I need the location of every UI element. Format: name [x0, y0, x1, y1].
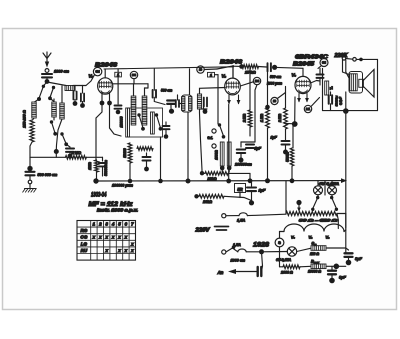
coil IFT2 tune coil [197, 94, 201, 109]
wire An lead [234, 271, 258, 273]
label tel [208, 136, 214, 140]
wire V1 anode to bus [104, 69, 106, 78]
resistor 20 kohm bleeder [194, 194, 224, 198]
dial lamp 1 [314, 181, 323, 195]
svg-text:V₃: V₃ [292, 73, 297, 78]
capacitor IFT1 fixed [167, 101, 175, 114]
node cath row bus [248, 178, 253, 183]
label 500cm coupling [270, 75, 281, 79]
svg-text:10000 Ω: 10000 Ω [308, 270, 321, 274]
svg-text:0M: 0M [322, 61, 327, 65]
wire to band switch [43, 82, 47, 86]
label 220K [333, 53, 348, 59]
resistor 100000 column [126, 108, 130, 137]
svg-text:6V-0,15A: 6V-0,15A [276, 258, 291, 262]
svg-text:An: An [217, 270, 224, 275]
svg-text:x: x [92, 235, 96, 240]
label 100000 selector [120, 116, 124, 127]
speaker cone [363, 70, 374, 98]
resistor 50000 column [151, 112, 155, 134]
wire top bus V1-V2 [104, 67, 234, 69]
wire to V1 grid [86, 75, 95, 86]
wire S1 to coil [35, 99, 40, 102]
box 1 V2 [208, 72, 219, 77]
svg-text:x: x [111, 235, 115, 240]
tone capacitor [329, 92, 332, 111]
resistor 50000 output [325, 81, 334, 95]
resistor 2 Mohm a [243, 67, 252, 136]
label 1.5A fuse1 [237, 218, 245, 223]
svg-text:x: x [124, 248, 128, 253]
arrow An [228, 269, 236, 274]
svg-text:2 MΩ: 2 MΩ [71, 150, 82, 155]
terminal tel 2 [212, 144, 216, 148]
svg-text:1μF: 1μF [271, 136, 278, 140]
node IFT2 bus [186, 179, 191, 184]
svg-text:500 cm: 500 cm [270, 75, 281, 79]
wire sel to bus b [158, 137, 163, 183]
resistor Bmax box [300, 264, 326, 269]
label 50000 lower [123, 148, 127, 157]
capacitor IFT1 trim a [153, 90, 165, 105]
screen circle 600 V1 [130, 71, 137, 84]
label 500cm IFT1 [161, 89, 172, 93]
wire node to coil top [47, 82, 66, 86]
capacitor 200000 cm [237, 142, 245, 163]
speaker voice coil [359, 79, 364, 87]
node V2 cath bus [226, 179, 231, 184]
svg-text:100000: 100000 [120, 116, 124, 127]
capacitor 1uF decoupling [241, 142, 262, 151]
svg-text:100000 μcm: 100000 μcm [112, 184, 134, 188]
wire IFT2 down to bus [187, 112, 189, 181]
svg-text:1000 μcm: 1000 μcm [267, 82, 282, 86]
pin V2 heater [237, 95, 241, 105]
svg-text:500000cm: 500000cm [104, 160, 108, 176]
svg-text:8μF: 8μF [339, 275, 347, 280]
wire bus to IFT2 primary [189, 69, 191, 95]
svg-text:RU: RU [81, 248, 88, 253]
svg-text:1000Ω: 1000Ω [215, 150, 219, 160]
svg-text:600: 600 [132, 74, 137, 77]
fuse 1 [226, 213, 286, 216]
wire frame left b [345, 60, 347, 109]
svg-text:1MΩ: 1MΩ [88, 162, 92, 170]
node mains junction [259, 249, 264, 254]
trimmer cap 1 [73, 86, 78, 106]
wire supply to frame [356, 58, 377, 62]
label 6V 0,15A lamps [319, 182, 340, 186]
switch sel a [137, 113, 145, 130]
node Bmax out [334, 264, 346, 270]
wire bus trim stub [153, 69, 155, 90]
grid leak cap V3 [317, 68, 324, 85]
pin V2 cathode [227, 95, 231, 105]
bus arrow end [341, 178, 347, 183]
resistor 2000 ohm [280, 265, 301, 269]
svg-text:5R: 5R [237, 187, 242, 192]
svg-text:V₁: V₁ [89, 74, 94, 79]
coupling capacitor [268, 63, 278, 71]
wire frame left a [342, 60, 344, 72]
svg-text:10: 10 [273, 99, 277, 103]
resistor 1 Mohm vertical [95, 157, 99, 178]
label 05uF tone [339, 97, 343, 105]
svg-text:x: x [130, 248, 134, 253]
label B2045 [293, 62, 314, 68]
label 50000 tone [335, 96, 339, 107]
capacitor IFT2 tune [200, 98, 208, 114]
title MF 112 kHz [89, 201, 134, 208]
mains terminal 2 [222, 250, 226, 254]
label Sm [312, 241, 318, 247]
label 6BR434C [295, 55, 329, 61]
svg-text:500 000 cm: 500 000 cm [38, 173, 58, 177]
svg-text:4: 4 [111, 222, 115, 227]
capacitor antenna series [42, 74, 52, 77]
wire V1 pin2 down [110, 103, 122, 136]
wire earth row [30, 156, 65, 158]
wire circle to anode node [204, 66, 233, 70]
label pilot lamp [276, 258, 291, 262]
bus earth line [96, 180, 342, 182]
wire IFT2 to V2 [200, 88, 226, 95]
svg-text:B2046: B2046 [220, 60, 243, 66]
capacitor 8uF a [345, 248, 363, 265]
input circle V2 [197, 66, 204, 73]
resistor 250-200 ohm [30, 118, 34, 157]
circle 0M output [318, 59, 328, 69]
mains terminal 1 [222, 214, 226, 218]
resistor 5000 ohm column [227, 142, 231, 166]
resistor 80-410 ohm [286, 212, 337, 216]
capacitor 1uF bleeder [247, 181, 266, 205]
resistor 30000 h [137, 147, 153, 151]
svg-text:V₂: V₂ [222, 73, 227, 78]
svg-text:2 MΩ: 2 MΩ [243, 114, 247, 124]
svg-text:20kΩ: 20kΩ [202, 200, 212, 204]
selector frame [128, 108, 163, 137]
wire V1 plate to IFT1 [113, 84, 149, 96]
switch S1 contact [42, 85, 45, 88]
label An [217, 270, 224, 275]
transformer winding [350, 74, 357, 91]
switch S2 arm [48, 86, 55, 102]
tube V3 [295, 76, 311, 93]
label 2 Mohm [71, 150, 82, 155]
wire coupling to V3 grid [277, 66, 304, 69]
wire rect bottom [279, 247, 281, 252]
capacitor 500000 cm earth [26, 172, 35, 176]
wire Sm to B+ [326, 247, 346, 249]
label V2 heater [326, 236, 331, 240]
wire rheostat right [337, 214, 338, 229]
svg-text:OG: OG [80, 235, 88, 240]
capacitor An series [258, 267, 262, 276]
wire 25k to coupling cap [259, 66, 267, 69]
antenna [43, 52, 51, 68]
switch S3 arm [50, 117, 57, 136]
svg-text:0M: 0M [96, 70, 101, 74]
svg-text:2000 Ω: 2000 Ω [280, 271, 293, 275]
node rheostat tap [296, 200, 301, 205]
wire bleeder right [224, 196, 252, 200]
svg-text:1 MΩ: 1 MΩ [260, 114, 264, 123]
svg-text:2 MΩ: 2 MΩ [278, 114, 282, 124]
switch lamp1 [311, 195, 319, 211]
svg-text:2: 2 [98, 222, 102, 227]
label Bmax [311, 259, 320, 265]
antenna terminal [45, 69, 49, 73]
wire coil to caps [73, 85, 86, 87]
antenna coupling coil bumps [65, 86, 74, 91]
wire IFT1 link top [145, 84, 149, 96]
wire x322 vertical [322, 68, 324, 110]
node bus left end [93, 178, 98, 183]
label 1000 ohm [215, 150, 219, 160]
wire R down to blocking cap [29, 157, 31, 166]
wire 5R down [239, 193, 241, 198]
svg-text:tel.: tel. [208, 136, 214, 140]
pin V3 cathode [297, 94, 301, 103]
svg-text:20kΩ: 20kΩ [207, 177, 217, 181]
label 1000 cm (antenna cap) [54, 70, 70, 74]
capacitor sel [163, 122, 170, 139]
dial lamp 2 [328, 181, 337, 195]
label Sm value [310, 252, 319, 256]
wire mains to lamp [262, 251, 288, 253]
svg-text:Instr. 1000 a.p.v.: Instr. 1000 a.p.v. [97, 208, 138, 213]
pilot lamp [287, 247, 296, 256]
svg-text:1000 cm: 1000 cm [54, 70, 70, 74]
title 1933-34 [91, 192, 107, 199]
label 20 kohm bleeder [202, 200, 212, 204]
coil L1 primary [52, 99, 56, 117]
screen circle 100 V2 [253, 77, 260, 84]
wire circle141 diag [311, 98, 320, 107]
svg-text:80 Ω - 410 Ω: 80 Ω - 410 Ω [299, 218, 337, 223]
label 220V [194, 228, 210, 234]
svg-text:1μF: 1μF [259, 188, 267, 193]
wire V3 right top [311, 81, 317, 84]
wire L2 bottom down [54, 119, 62, 157]
coil IFT2 bobbin [182, 95, 193, 112]
resistor 50000 lower [128, 143, 132, 163]
svg-text:220V: 220V [194, 228, 210, 234]
svg-text:1000 cm: 1000 cm [231, 259, 246, 263]
wire between lamps [324, 181, 326, 195]
coil IFT1 primary [131, 96, 136, 125]
svg-text:8μF: 8μF [355, 256, 363, 261]
capacitor sel lower [143, 153, 151, 171]
wire IFT2 left down [200, 113, 203, 173]
label B2046 [220, 60, 243, 66]
wire V2 to screen circle [240, 82, 253, 86]
wire antenna to node [46, 77, 48, 81]
padder capacitor [66, 144, 74, 158]
node antenna junction [45, 79, 50, 84]
svg-text:200000cm: 200000cm [234, 163, 252, 167]
node 25k left [239, 64, 244, 69]
resistor Sm box [311, 246, 326, 251]
svg-text:1933-34: 1933-34 [91, 192, 107, 199]
resistor 1 Mohm b [260, 67, 269, 178]
capacitor cathode bypass [99, 157, 108, 176]
label V1 [89, 74, 94, 79]
wire trafo leads [343, 72, 350, 78]
resistor 25 kohm [233, 65, 259, 69]
svg-text:100: 100 [255, 79, 260, 83]
node res bottoms [220, 166, 232, 174]
wire V3 cathode down [294, 97, 296, 122]
wire lamp to Sm [297, 248, 311, 251]
label V1 heater [309, 236, 314, 240]
resistor 5000 ohm avc [286, 126, 294, 179]
heater chain bumps [280, 224, 346, 231]
svg-text:RG: RG [80, 228, 87, 233]
coil antenna tap [32, 102, 36, 118]
label 1 Mohm [88, 162, 92, 170]
svg-text:0,5μF: 0,5μF [339, 97, 343, 105]
svg-text:x: x [117, 248, 121, 253]
switch lamp2 [330, 195, 338, 211]
trimmer cap 2 [80, 86, 85, 108]
svg-text:V₂: V₂ [326, 236, 331, 240]
switch sel b [155, 113, 163, 130]
label 500000 cm [38, 173, 58, 177]
node V3 cathode [292, 121, 298, 127]
pin V1 cathode [100, 93, 105, 106]
resistor 2 Mohm [65, 156, 102, 160]
label V2 [222, 73, 227, 78]
svg-text:6V 0,15A: 6V 0,15A [319, 182, 340, 186]
svg-text:V₃: V₃ [291, 236, 296, 240]
supply terminal a [342, 57, 346, 61]
label 25 kohm [244, 70, 256, 75]
svg-text:500 cm: 500 cm [161, 89, 172, 93]
label B2048 [95, 63, 118, 69]
switch mains arm [226, 246, 238, 253]
svg-text:LG: LG [81, 241, 88, 246]
wire grid V2 down [217, 75, 219, 124]
transformer bobbin [349, 72, 363, 94]
label 1928 [253, 242, 269, 249]
supply terminal b [346, 58, 357, 62]
svg-text:1: 1 [210, 73, 212, 77]
pin V3 heater [305, 94, 309, 103]
node blocking cap [27, 166, 32, 171]
label V3 [292, 73, 297, 78]
svg-text:x: x [124, 235, 128, 240]
svg-text:50000: 50000 [123, 148, 127, 157]
svg-text:x: x [117, 235, 121, 240]
tube V2 [225, 78, 241, 95]
earth terminal circle [28, 175, 32, 184]
resistor 1000 ohm column [220, 142, 224, 166]
wire rect top [279, 232, 281, 239]
node output rail [343, 108, 349, 114]
svg-text:1μF: 1μF [255, 147, 262, 151]
wire cathode left [286, 123, 293, 125]
capacitor IFT1 trim b [176, 95, 182, 107]
wire screen circle down [255, 85, 257, 142]
rectifier circle S [275, 238, 284, 247]
node 1M bus [265, 178, 270, 183]
wire rheostat to B+ [337, 214, 346, 229]
arrow rheostat tap [297, 204, 301, 212]
switch tel arm [218, 123, 226, 138]
program table [77, 221, 136, 261]
title Instr [97, 208, 138, 213]
svg-text:B2045: B2045 [293, 62, 314, 68]
wire V2 cathode to bus [228, 105, 230, 182]
wire frame right [377, 59, 379, 110]
label 1.5A fuse2 [233, 243, 241, 247]
svg-text:250-200 Ω: 250-200 Ω [23, 110, 27, 129]
grid cap circle V1 [93, 67, 101, 75]
label 1000ucm coupling [267, 82, 282, 86]
fuse 2 [238, 249, 260, 252]
ground symbol [23, 189, 37, 193]
svg-text:141: 141 [306, 108, 311, 111]
coil IFT1 secondary [142, 96, 147, 125]
terminal tel 1 [212, 129, 216, 133]
label 20 kohm cathode [207, 177, 217, 181]
label 100000 ucm bus [112, 184, 134, 188]
wire cath row right [228, 173, 250, 179]
capacitor 8uF b [328, 266, 347, 283]
node cath res left [200, 171, 204, 175]
svg-text:1,5A: 1,5A [233, 243, 241, 247]
box 1 V1 and grid cap [115, 69, 122, 114]
svg-text:x: x [104, 235, 108, 240]
svg-text:S: S [278, 240, 281, 245]
wire sel to bus a [128, 163, 133, 183]
wire mains to An cap [262, 252, 263, 272]
box 5R [235, 184, 246, 193]
wire V3 grid up [302, 68, 304, 76]
pin V1 heater [107, 93, 112, 106]
svg-text:10: 10 [199, 68, 203, 72]
wire V1 cathode down [96, 103, 102, 157]
coil L2 secondary [60, 86, 64, 119]
label 1000cm mains [231, 259, 246, 263]
label 2000 ohm [280, 271, 293, 275]
svg-text:x: x [104, 248, 108, 253]
tube V1 [98, 78, 113, 94]
svg-text:1928: 1928 [253, 242, 269, 249]
wire V2 anode [232, 66, 234, 78]
label V3 heater [291, 236, 296, 240]
battery symbol [215, 227, 229, 231]
svg-text:B2048: B2048 [95, 63, 118, 69]
svg-text:x: x [98, 235, 102, 240]
circle 10 avc [265, 93, 285, 110]
label 80-410 ohm [299, 218, 337, 223]
switch S4 arm [60, 132, 68, 146]
svg-text:110 Ω: 110 Ω [310, 252, 319, 256]
svg-text:1,5A: 1,5A [237, 218, 245, 223]
switch S1 arm [37, 86, 43, 101]
circle 141 [304, 105, 311, 112]
label Bmax value [308, 270, 321, 274]
capacitor 1uF avc [271, 129, 290, 155]
wire B+ down [345, 111, 347, 253]
wire to ground [29, 184, 31, 188]
label 250-200 ohm [23, 110, 27, 129]
resistor 2 Mohm b [278, 87, 287, 130]
wire Bmax right [326, 265, 334, 267]
